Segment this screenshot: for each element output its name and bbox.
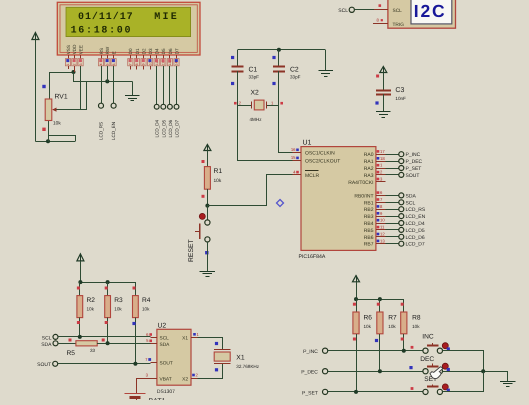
wire U1 RB7 to terminal LCD_D7 xyxy=(386,243,399,245)
svg-text:LCD_D7: LCD_D7 xyxy=(175,119,180,137)
svg-text:RB6: RB6 xyxy=(364,235,374,241)
svg-text:C3: C3 xyxy=(395,87,404,94)
svg-text:D6: D6 xyxy=(168,48,173,54)
svg-text:10k: 10k xyxy=(214,178,222,184)
wire U1 RA1 to terminal P_DEC xyxy=(386,161,399,163)
U1 right pin stubs, numbers, wires and terminals xyxy=(376,154,386,156)
terminal LCD_EN xyxy=(111,103,116,108)
svg-text:LCD_D6: LCD_D6 xyxy=(168,119,173,137)
RESET pressed indicator dot xyxy=(199,213,205,219)
svg-text:TRIG: TRIG xyxy=(393,22,405,28)
svg-text:C1: C1 xyxy=(249,67,258,74)
svg-text:RA0: RA0 xyxy=(364,152,374,158)
svg-text:OSC2/CLKOUT: OSC2/CLKOUT xyxy=(305,159,340,165)
terminal SDA (left) xyxy=(53,341,58,346)
svg-text:15: 15 xyxy=(291,155,296,160)
svg-text:R5: R5 xyxy=(67,350,76,357)
svg-text:X2: X2 xyxy=(182,376,188,382)
svg-text:11: 11 xyxy=(155,62,159,66)
marker blue C2 top xyxy=(272,56,275,59)
svg-text:SCL: SCL xyxy=(42,335,52,341)
svg-text:P_SET: P_SET xyxy=(406,166,422,172)
svg-text:LCD_D4: LCD_D4 xyxy=(406,221,425,227)
wire RW pin5 drop xyxy=(107,66,109,82)
wire power to bottom rail xyxy=(35,40,37,142)
svg-text:SCL: SCL xyxy=(393,8,403,14)
svg-text:2: 2 xyxy=(73,63,77,65)
svg-text:X1: X1 xyxy=(182,336,188,342)
marker blue X1 top xyxy=(215,342,218,345)
svg-text:P_SET: P_SET xyxy=(302,390,318,396)
svg-text:LCD_D5: LCD_D5 xyxy=(161,119,166,137)
node junction SOUT R4 xyxy=(133,362,137,366)
ground symbol (C3) xyxy=(376,111,391,113)
push button RESET xyxy=(207,206,209,220)
wire X1 bottom xyxy=(198,364,223,379)
terminal SCL (left) xyxy=(53,334,58,339)
wire pullup rail right xyxy=(356,282,358,299)
resistor R5 xyxy=(58,343,76,345)
svg-text:DS1307: DS1307 xyxy=(157,389,175,395)
svg-text:D3: D3 xyxy=(148,48,153,54)
marker red R1 top xyxy=(202,160,205,163)
svg-text:4MHz: 4MHz xyxy=(250,117,263,122)
svg-text:33: 33 xyxy=(90,348,96,353)
node junction VDD pin2 xyxy=(72,70,76,74)
svg-text:10k: 10k xyxy=(388,324,396,329)
wire MCLR net xyxy=(208,175,293,206)
terminal P_DEC xyxy=(399,159,404,164)
marker blue C1 top xyxy=(231,56,234,59)
svg-text:R6: R6 xyxy=(364,315,373,322)
terminal P_SET xyxy=(399,166,404,171)
svg-text:MIE: MIE xyxy=(154,12,179,23)
unconnected stubs D0-D3 xyxy=(130,66,132,70)
node junction MCLR xyxy=(205,204,209,208)
node junction rail R6 xyxy=(354,297,358,301)
svg-text:RA4/T0CKI: RA4/T0CKI xyxy=(348,180,373,186)
resistor R3 xyxy=(107,282,109,296)
svg-text:LCD_EN: LCD_EN xyxy=(406,214,426,220)
svg-text:SDA: SDA xyxy=(160,342,171,348)
I2C SCL pin stub xyxy=(374,9,388,11)
svg-text:LCD_D7: LCD_D7 xyxy=(406,242,425,248)
wire U1 RB4 to terminal LCD_D4 xyxy=(386,223,399,225)
svg-text:7: 7 xyxy=(129,63,133,65)
svg-text:D4: D4 xyxy=(155,48,160,54)
svg-text:X1: X1 xyxy=(236,355,245,362)
svg-text:18: 18 xyxy=(380,156,385,161)
svg-text:13: 13 xyxy=(380,238,385,243)
svg-text:10k: 10k xyxy=(412,324,420,329)
svg-text:SOUT: SOUT xyxy=(37,362,51,368)
terminal SDA xyxy=(399,193,404,198)
svg-text:3: 3 xyxy=(79,63,83,65)
svg-text:U1: U1 xyxy=(303,140,312,147)
svg-text:DEC: DEC xyxy=(420,356,434,363)
svg-text:MCLR: MCLR xyxy=(305,173,320,179)
ground symbol (crystal area) xyxy=(325,50,327,71)
svg-text:P_INC: P_INC xyxy=(303,349,318,355)
battery BAT1 xyxy=(125,393,146,395)
wire SDA to U2 xyxy=(108,343,151,345)
svg-text:RB7: RB7 xyxy=(364,242,374,248)
wire INC to common xyxy=(443,351,484,372)
wire VEE link xyxy=(86,81,88,109)
marker blue C2 bottom xyxy=(272,82,275,85)
svg-text:SCL: SCL xyxy=(406,200,416,206)
power symbol +5V (R2R3R4) xyxy=(80,254,82,262)
marker blue C3 bottom xyxy=(375,101,378,104)
terminal LCD_EN xyxy=(399,214,404,219)
svg-text:SOUT: SOUT xyxy=(406,173,420,179)
svg-text:10nF: 10nF xyxy=(395,96,406,101)
svg-text:14: 14 xyxy=(175,62,179,66)
svg-text:10k: 10k xyxy=(142,307,150,312)
wire caps top rail xyxy=(238,49,326,51)
svg-text:LCD_D4: LCD_D4 xyxy=(155,119,160,137)
svg-text:SDA: SDA xyxy=(406,193,417,199)
svg-text:RB4: RB4 xyxy=(364,221,374,227)
marker red RV1 xyxy=(42,128,45,131)
svg-text:11: 11 xyxy=(380,225,385,230)
marker blue C1 bottom xyxy=(231,82,234,85)
svg-text:16:18:00: 16:18:00 xyxy=(71,25,133,36)
svg-text:RW: RW xyxy=(105,46,110,54)
svg-text:P_INC: P_INC xyxy=(406,152,421,158)
resistor R2 xyxy=(79,282,81,296)
svg-text:R8: R8 xyxy=(412,315,421,322)
U1 MCLR overline xyxy=(305,170,319,172)
svg-text:6: 6 xyxy=(112,63,116,65)
wire SOUT net xyxy=(58,363,151,365)
svg-text:PIC16F84A: PIC16F84A xyxy=(299,254,326,260)
svg-text:OSC1/CLKIN: OSC1/CLKIN xyxy=(305,151,335,157)
wire U1 RB2 to terminal LCD_RS xyxy=(386,209,399,211)
terminals LCD_D4..LCD_D7 xyxy=(154,104,159,109)
I2C TRIG pin stub xyxy=(373,23,388,25)
svg-text:RS: RS xyxy=(99,48,104,54)
svg-text:VBAT: VBAT xyxy=(160,376,172,382)
wire crystal left node to OSC2 xyxy=(238,106,293,161)
svg-text:VSS: VSS xyxy=(66,45,71,54)
power symbol +5V (R1) xyxy=(207,144,209,151)
IC U1 PIC16F84A body xyxy=(301,147,376,251)
svg-text:RB1: RB1 xyxy=(364,200,374,206)
wire P_SET net xyxy=(328,391,423,393)
wire VEE pin3 drop xyxy=(80,66,82,110)
svg-text:10k: 10k xyxy=(114,307,122,312)
IC U2 DS1307 body xyxy=(157,329,191,385)
terminal LCD_RS xyxy=(99,103,104,108)
wire crystal right node to OSC1 xyxy=(279,106,293,153)
terminal P_DEC xyxy=(323,369,328,374)
svg-text:R1: R1 xyxy=(214,168,223,175)
svg-text:RB0/INT: RB0/INT xyxy=(354,193,373,199)
svg-text:D0: D0 xyxy=(128,48,133,54)
node junction SDA R3 xyxy=(106,341,110,345)
svg-text:SDA: SDA xyxy=(41,342,52,348)
svg-text:INC: INC xyxy=(422,334,434,341)
crystal X1 xyxy=(214,352,230,361)
unconnected stub pin 1 VSS xyxy=(68,66,70,69)
svg-text:VDD: VDD xyxy=(72,44,77,54)
wire DEC to ground xyxy=(443,371,508,373)
svg-text:P_DEC: P_DEC xyxy=(406,159,423,165)
svg-text:LCD_RS: LCD_RS xyxy=(406,207,426,213)
svg-text:16: 16 xyxy=(291,147,296,152)
wire pullup rail xyxy=(80,261,82,282)
svg-text:RV1: RV1 xyxy=(55,94,68,101)
svg-text:U2: U2 xyxy=(158,323,167,330)
svg-text:10: 10 xyxy=(380,218,385,223)
wire U1 RB0/INT to terminal SDA xyxy=(386,195,399,197)
svg-text:RB3: RB3 xyxy=(364,214,374,220)
LCD pin stubs xyxy=(68,55,70,59)
wire RV1 wiper xyxy=(53,109,87,111)
wire U1 RA3 to terminal SOUT xyxy=(386,174,399,176)
terminal LCD_RS xyxy=(399,207,404,212)
svg-text:R2: R2 xyxy=(87,297,96,304)
svg-text:5: 5 xyxy=(106,63,110,65)
node junction rail R7 xyxy=(378,297,382,301)
svg-text:C2: C2 xyxy=(290,67,299,74)
wire to ground rail xyxy=(74,73,133,82)
svg-text:10k: 10k xyxy=(364,324,372,329)
resistor R8 xyxy=(401,312,407,334)
svg-text:P_DEC: P_DEC xyxy=(301,370,318,376)
resistor R7 xyxy=(379,299,381,312)
terminal LCD_D4 xyxy=(399,221,404,226)
svg-text:I2C: I2C xyxy=(414,1,447,21)
capacitor C3 xyxy=(383,73,385,91)
terminal P_INC xyxy=(323,348,328,353)
svg-text:R4: R4 xyxy=(142,297,151,304)
mouse hand cursor xyxy=(430,367,443,379)
LCD display module LD1 xyxy=(57,2,200,55)
svg-text:D7: D7 xyxy=(174,48,179,54)
svg-text:8: 8 xyxy=(135,63,139,65)
svg-text:X2: X2 xyxy=(251,90,260,97)
node junction SCL R2 xyxy=(78,335,82,339)
resistor R4 xyxy=(133,296,139,318)
svg-text:RESET: RESET xyxy=(188,239,195,262)
wire VDD pin2 drop xyxy=(74,66,76,72)
ground symbol (LCD area) xyxy=(132,81,134,95)
wire E pin6 to terminal xyxy=(113,66,115,103)
terminal LCD_D5 xyxy=(399,227,404,232)
node junction common xyxy=(481,369,485,373)
svg-text:D1: D1 xyxy=(135,48,140,54)
svg-text:LCD_D5: LCD_D5 xyxy=(406,228,425,234)
terminal P_SET xyxy=(323,389,328,394)
svg-text:RA3: RA3 xyxy=(364,173,374,179)
wire U1 RB1 to terminal SCL xyxy=(386,202,399,204)
svg-text:VEE: VEE xyxy=(79,45,84,54)
svg-text:4: 4 xyxy=(99,63,103,65)
svg-text:12: 12 xyxy=(380,232,385,237)
power symbol +5V (R6R7R8) xyxy=(356,276,358,283)
U1 left pin stubs and numbers xyxy=(293,152,301,154)
U2 right stubs to crystal X1 xyxy=(191,337,198,339)
svg-text:R3: R3 xyxy=(114,297,123,304)
terminal SCL xyxy=(399,200,404,205)
resistor R1 xyxy=(207,151,209,167)
svg-text:SOUT: SOUT xyxy=(160,361,173,367)
terminal LCD_D6 xyxy=(399,234,404,239)
svg-text:33pF: 33pF xyxy=(290,75,301,80)
wire X1 top xyxy=(198,338,223,350)
resistor R6 xyxy=(356,299,358,312)
terminal P_INC xyxy=(399,152,404,157)
svg-text:LCD_RS: LCD_RS xyxy=(99,122,104,140)
terminal LCD_D7 xyxy=(399,241,404,246)
node junction rail R3 xyxy=(106,280,110,284)
svg-text:SCL: SCL xyxy=(160,336,170,342)
svg-text:E: E xyxy=(112,51,117,54)
svg-text:RB2: RB2 xyxy=(364,207,374,213)
wire RESET to ground xyxy=(207,242,209,271)
svg-text:1: 1 xyxy=(66,63,70,65)
node junction P_DEC R7 xyxy=(378,369,382,373)
svg-text:33pF: 33pF xyxy=(249,75,260,80)
svg-text:LCD_D6: LCD_D6 xyxy=(406,235,425,241)
wires D4-D7 to terminals xyxy=(156,66,158,105)
terminal SOUT xyxy=(399,172,404,177)
svg-text:RB5: RB5 xyxy=(364,228,374,234)
power symbol +5V (top left) xyxy=(35,33,37,41)
node junction P_INC R8 xyxy=(402,349,406,353)
svg-text:10k: 10k xyxy=(87,307,95,312)
wire VDD to RV1 top xyxy=(50,73,74,100)
wire SCL terminal to I2C xyxy=(354,9,374,11)
svg-text:01/11/17: 01/11/17 xyxy=(78,11,134,23)
svg-text:RA2: RA2 xyxy=(364,166,374,172)
capacitor C1 xyxy=(237,50,239,67)
U2 pin stubs + numbers xyxy=(151,337,157,339)
svg-text:17: 17 xyxy=(380,149,385,154)
wire bottom rail xyxy=(35,141,75,143)
wire RS pin4 to terminal xyxy=(101,66,103,103)
wire P_INC net xyxy=(328,350,423,352)
svg-text:D2: D2 xyxy=(141,48,146,54)
node junction P_SET R6 xyxy=(354,390,358,394)
wire RV1 bottom xyxy=(48,121,50,142)
marker blue RESET xyxy=(205,251,208,254)
wire U1 RA0 to terminal P_INC xyxy=(386,154,399,156)
wire VBAT pin 3 to battery xyxy=(136,378,157,380)
svg-text:10: 10 xyxy=(148,62,152,66)
wire U1 RB6 to terminal LCD_D6 xyxy=(386,236,399,238)
svg-text:32.768KHz: 32.768KHz xyxy=(236,364,259,369)
node junction RW xyxy=(105,79,109,83)
marker blue RV1 xyxy=(42,85,45,88)
svg-text:D5: D5 xyxy=(161,48,166,54)
svg-text:9: 9 xyxy=(142,63,146,65)
marker red C3 top xyxy=(376,75,379,78)
capacitor C2 xyxy=(278,50,280,67)
wire SET to common xyxy=(443,372,484,392)
terminal SOUT (left) xyxy=(53,361,58,366)
I2C debugger module xyxy=(388,0,456,28)
marker red R1 bottom xyxy=(202,195,205,198)
svg-text:R7: R7 xyxy=(388,315,397,322)
potentiometer RV1 xyxy=(45,99,52,121)
LCD pin number boxes 1-14 xyxy=(65,59,70,66)
crystal X2 xyxy=(254,100,264,110)
node junction C2 top xyxy=(277,48,281,52)
svg-text:10k: 10k xyxy=(53,120,61,126)
wire SCL net xyxy=(58,336,151,338)
wire U1 RA2 to terminal P_SET xyxy=(386,168,399,170)
svg-text:13: 13 xyxy=(168,62,172,66)
ground symbol (RESET) xyxy=(200,271,216,273)
node junction rail R2 xyxy=(78,280,82,284)
svg-text:12: 12 xyxy=(162,62,166,66)
wire small link xyxy=(49,136,76,142)
svg-text:LCD_EN: LCD_EN xyxy=(111,122,116,140)
wire U1 RB5 to terminal LCD_D5 xyxy=(386,229,399,231)
node junction RV1 bottom xyxy=(46,139,50,143)
net marker diamond xyxy=(277,200,284,207)
marker blue X1 bottom xyxy=(215,368,218,371)
svg-text:RA1: RA1 xyxy=(364,159,374,165)
power symbol +5V (C3) xyxy=(383,67,385,74)
wire P_DEC net xyxy=(328,371,423,373)
svg-text:SCL: SCL xyxy=(338,8,348,14)
wire U1 RB3 to terminal LCD_EN xyxy=(386,216,399,218)
ground symbol (buttons) xyxy=(507,371,509,381)
terminal SCL (top) xyxy=(349,7,354,12)
